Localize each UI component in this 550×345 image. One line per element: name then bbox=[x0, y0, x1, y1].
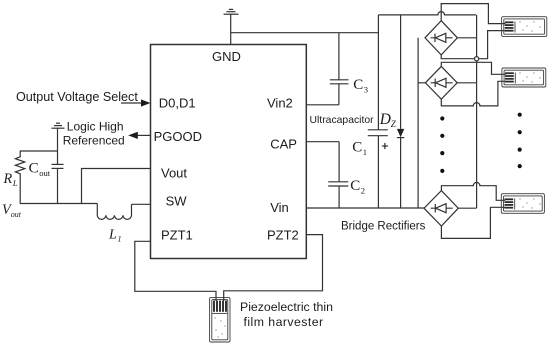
piezoelectric harvester H3 (bottom right) bbox=[501, 194, 544, 214]
svg-text:Vin2: Vin2 bbox=[267, 95, 293, 110]
text Logic High Referenced bbox=[63, 120, 125, 148]
wire SW lead bbox=[132, 203, 151, 205]
wire BR1 AC top to harvester1 bbox=[441, 4, 505, 24]
wire Vin rail bbox=[306, 207, 424, 209]
wire GND branch to rails bbox=[231, 32, 379, 34]
svg-text:1: 1 bbox=[118, 235, 122, 244]
ultracapacitor C1 bbox=[368, 15, 388, 208]
label Vout node bbox=[2, 202, 22, 219]
resistor RL bbox=[15, 151, 24, 204]
text Piezoelectric thin film harvester bbox=[240, 300, 333, 329]
arrow from PGOOD bbox=[128, 132, 150, 139]
label RL bbox=[3, 171, 18, 188]
svg-text:PZT2: PZT2 bbox=[267, 227, 299, 242]
zener diode DZ bbox=[397, 15, 404, 208]
ellipsis dots column 1 bbox=[440, 116, 444, 173]
svg-text:film harvester: film harvester bbox=[244, 315, 324, 329]
wire BR2 DC+ stub bbox=[457, 82, 476, 84]
svg-text:Vin: Vin bbox=[270, 200, 289, 215]
wire BR2 AC top to harvester2 bbox=[441, 62, 506, 74]
bridge rectifier BR2 bbox=[425, 66, 457, 99]
svg-text:C: C bbox=[350, 178, 360, 194]
svg-text:3: 3 bbox=[364, 84, 368, 94]
wire BR2 AC bottom to harvester2 (hop over DC+) bbox=[441, 81, 506, 106]
label L1 bbox=[108, 228, 122, 244]
wire Vout node bbox=[82, 169, 151, 204]
svg-text:C: C bbox=[29, 160, 39, 176]
wire BR3 AC bottom to harvester3 bbox=[441, 207, 505, 238]
svg-text:SW: SW bbox=[166, 193, 188, 208]
wire RL top bbox=[20, 150, 58, 152]
svg-text:Logic High: Logic High bbox=[67, 120, 124, 134]
svg-text:out: out bbox=[39, 168, 51, 178]
svg-text:PGOOD: PGOOD bbox=[154, 129, 202, 144]
svg-text:D0,D1: D0,D1 bbox=[159, 95, 196, 110]
svg-text:Output Voltage Select: Output Voltage Select bbox=[16, 90, 138, 104]
piezoelectric harvester H2 (right) bbox=[502, 68, 546, 87]
wire PZT2 bbox=[224, 235, 323, 301]
ground left bbox=[52, 123, 65, 128]
svg-text:C: C bbox=[352, 140, 362, 156]
ground top bbox=[224, 9, 239, 45]
svg-text:L: L bbox=[12, 178, 18, 188]
wire PZT1 bbox=[135, 241, 216, 301]
bridge rectifier BR3 bbox=[424, 191, 458, 226]
svg-text:D: D bbox=[379, 111, 391, 128]
wire DC+ vertical bbox=[476, 15, 478, 208]
ellipsis dots column 2 bbox=[518, 113, 522, 169]
svg-text:PZT1: PZT1 bbox=[161, 227, 193, 242]
plus sign of C1 bbox=[382, 143, 388, 149]
capacitor C2 bbox=[328, 142, 348, 208]
svg-text:1: 1 bbox=[363, 147, 367, 157]
wire BR3 DC+ stub bbox=[458, 207, 476, 209]
wire BR3 AC top to harvester3 (hop over DC+) bbox=[441, 182, 505, 200]
wire BR1 DC+ bbox=[457, 37, 476, 39]
label DZ bbox=[379, 111, 397, 129]
label C2 bbox=[350, 178, 365, 196]
svg-text:Z: Z bbox=[391, 119, 397, 129]
IC U1 (LTC3588) outline bbox=[151, 45, 307, 259]
wire BR2 DC- stub bbox=[418, 82, 425, 84]
svg-text:CAP: CAP bbox=[270, 136, 297, 151]
arrow into D0,D1 bbox=[121, 99, 150, 106]
inductor L1 bbox=[97, 204, 131, 220]
piezoelectric harvester H1 (top right) bbox=[502, 17, 547, 37]
svg-text:2: 2 bbox=[361, 186, 365, 196]
svg-text:L: L bbox=[108, 228, 117, 243]
svg-text:Vout: Vout bbox=[161, 166, 187, 181]
svg-text:Ultracapacitor: Ultracapacitor bbox=[310, 115, 375, 126]
wire top link (rails A-B to DC+) with hop bbox=[378, 12, 476, 15]
capacitor C3 bbox=[330, 33, 349, 105]
capacitor Cout bbox=[52, 128, 64, 203]
label C1 bbox=[352, 140, 367, 158]
piezoelectric thin film harvester (bottom) bbox=[210, 297, 230, 342]
bridge rectifier BR1 bbox=[425, 21, 457, 55]
svg-text:Piezoelectric thin: Piezoelectric thin bbox=[240, 300, 333, 314]
wire Vin2 bbox=[306, 104, 339, 106]
svg-text:C: C bbox=[353, 77, 363, 93]
svg-text:Bridge Rectifiers: Bridge Rectifiers bbox=[341, 221, 426, 233]
junction circle bbox=[475, 57, 479, 61]
svg-text:out: out bbox=[11, 210, 22, 219]
wire BR1 AC bottom to harvester1 bbox=[441, 31, 505, 59]
label Cout bbox=[29, 160, 51, 178]
label C3 bbox=[353, 77, 368, 95]
svg-text:R: R bbox=[3, 171, 13, 187]
wire CAP bbox=[306, 141, 339, 143]
svg-text:GND: GND bbox=[212, 49, 241, 64]
wire rail C (DC-) bbox=[417, 38, 419, 208]
wire bottom rail bbox=[20, 203, 97, 205]
svg-text:Referenced: Referenced bbox=[63, 134, 125, 148]
